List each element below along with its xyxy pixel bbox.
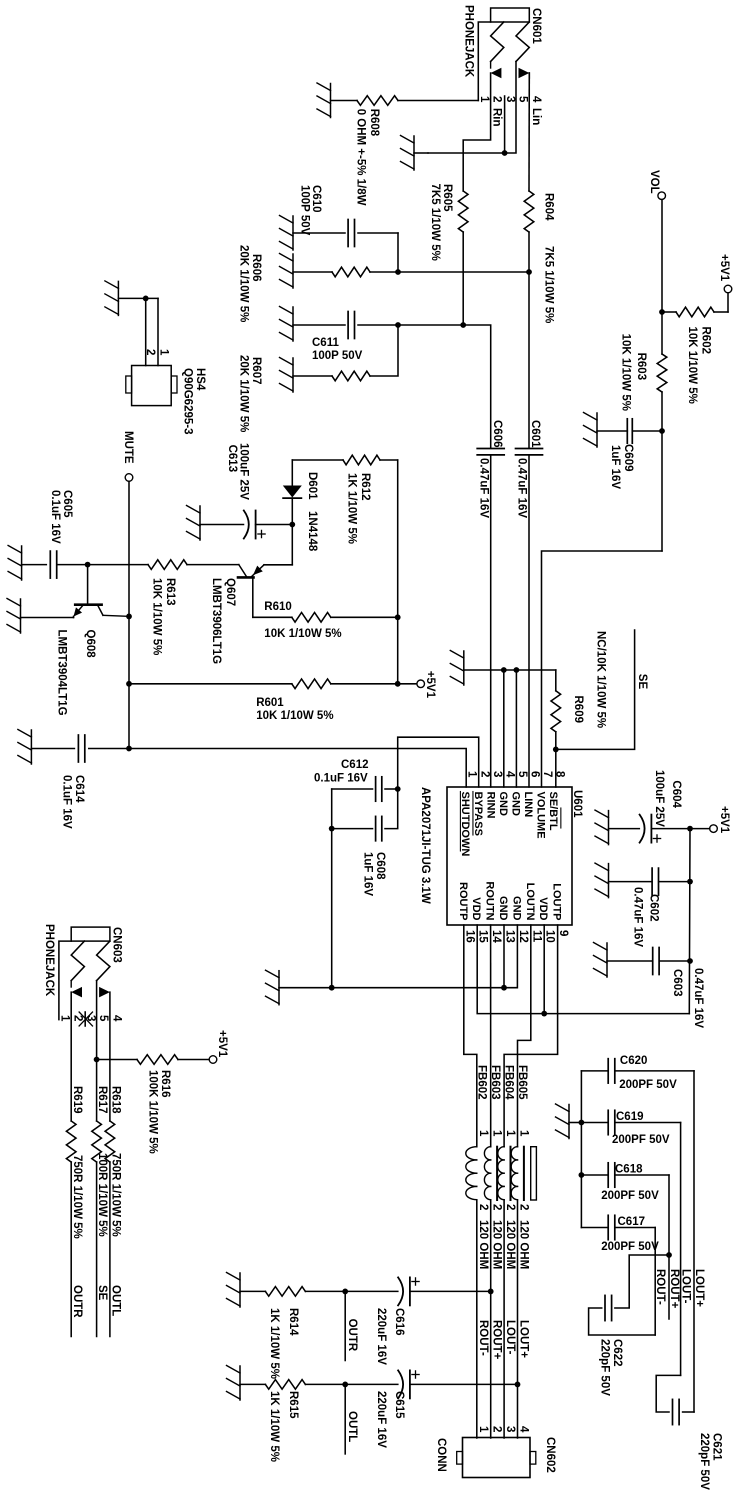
- wire C613 top: [256, 524, 293, 526]
- CN603 switch arrow pin4: [99, 987, 110, 998]
- svg-text:C609: C609: [622, 444, 634, 472]
- label R619 value: [71, 1155, 83, 1239]
- label R608 value: [355, 109, 367, 206]
- pin number 1 CN601: [478, 96, 490, 103]
- wire pin14 to FB603: [490, 925, 492, 1147]
- svg-text:200PF 50V: 200PF 50V: [612, 1134, 670, 1146]
- pin number 11 U601: [530, 930, 542, 943]
- svg-text:C604: C604: [670, 780, 682, 808]
- label R605 value: [429, 184, 441, 261]
- label NC/10K value: [595, 631, 607, 728]
- resistor R617: [92, 1121, 102, 1162]
- transistor Q607 bar: [238, 576, 254, 579]
- wire SHUTDOWN riser: [129, 749, 466, 788]
- wire R609 right stub: [555, 732, 557, 750]
- svg-text:GND: GND: [497, 792, 509, 817]
- plus C616: [412, 1278, 419, 1285]
- node caps/gnd junction: [329, 985, 335, 991]
- wire G1 stem: [414, 152, 428, 154]
- wire R610 bottom: [253, 616, 292, 618]
- wire R603 to corner: [661, 392, 663, 551]
- wire U601 pin10 lead: [543, 925, 545, 1014]
- svg-text:C617: C617: [618, 1216, 646, 1228]
- label C604 value: [653, 770, 665, 827]
- node C622/ROUT+ junction: [666, 1252, 672, 1258]
- svg-text:ROUT+: ROUT+: [491, 1320, 503, 1360]
- label R601 value: [256, 710, 333, 722]
- resistor R614: [265, 1287, 305, 1297]
- svg-text:750R 1/10W 5%: 750R 1/10W 5%: [71, 1155, 83, 1239]
- capacitor C614: [78, 735, 84, 762]
- node R601 bottom junction: [126, 681, 132, 687]
- svg-text:C610: C610: [310, 185, 322, 213]
- svg-text:R612: R612: [359, 473, 371, 501]
- plus C604: [653, 835, 660, 842]
- svg-text:10K 1/10W 5%: 10K 1/10W 5%: [264, 628, 341, 640]
- pin number 5 CN603: [97, 1015, 109, 1022]
- svg-text:0 OHM +-5% 1/8W: 0 OHM +-5% 1/8W: [355, 109, 367, 206]
- svg-text:C606: C606: [491, 420, 503, 448]
- label FB602 value 120 OHM: [477, 1220, 489, 1269]
- label C615: [393, 1391, 405, 1419]
- svg-text:1K 1/10W 5%: 1K 1/10W 5%: [346, 473, 358, 544]
- resistor R601: [292, 679, 331, 689]
- svg-text:2: 2: [491, 96, 503, 102]
- pin name RINN U601 pin3: [484, 792, 496, 819]
- label C617 value: [601, 1241, 659, 1253]
- label C621: [711, 1433, 723, 1461]
- pin number 1 CN602: [477, 1426, 489, 1433]
- svg-text:GND: GND: [510, 896, 522, 921]
- ground G19 (R615): [227, 1366, 241, 1401]
- label C608: [374, 852, 386, 880]
- node pin10 vdd junction: [541, 1011, 547, 1017]
- CN603 ring contact: [97, 941, 110, 981]
- label net ROUT+ ladder: [668, 1269, 680, 1309]
- pin name LINN U601 pin6: [522, 792, 534, 818]
- label C617: [618, 1216, 646, 1228]
- label R608: [368, 109, 380, 137]
- label C609 value: [609, 445, 621, 489]
- wire Rin shunt drop: [358, 324, 463, 326]
- label C612 value: [314, 773, 368, 785]
- svg-text:FB604: FB604: [503, 1065, 515, 1100]
- wire C620 to row: [615, 1070, 694, 1072]
- wire C614 top: [89, 748, 129, 750]
- svg-text:100uF 25V: 100uF 25V: [653, 770, 665, 827]
- wire Q607 emitter lead: [264, 564, 292, 566]
- label net LOUT- ladder: [680, 1269, 692, 1304]
- capacitor C601: [516, 449, 543, 455]
- resistor R603: [657, 354, 667, 392]
- wire pin1 drop: [398, 100, 478, 102]
- svg-text:200PF 50V: 200PF 50V: [601, 1190, 659, 1202]
- capacitor C621: [673, 1399, 680, 1424]
- svg-text:C602: C602: [648, 894, 660, 922]
- wire R614 top: [305, 1290, 345, 1292]
- label FB605: [516, 1065, 528, 1100]
- node C608 junction: [329, 826, 335, 832]
- label Q608 part: [56, 630, 68, 716]
- wire Q608 emitter to ground: [21, 617, 74, 618]
- node OUTL junction: [342, 1382, 348, 1388]
- pin number 14 U601: [490, 930, 502, 943]
- svg-text:10K 1/10W 5%: 10K 1/10W 5%: [620, 334, 632, 411]
- wire U601 pin4 lead: [503, 670, 505, 787]
- svg-text:0.47uF 16V: 0.47uF 16V: [478, 458, 490, 518]
- pin name GND U601 pin5: [509, 792, 521, 817]
- capacitor C617: [608, 1215, 615, 1239]
- wire FB602 to CN602 pin1: [476, 1200, 478, 1438]
- svg-text:LOUT-: LOUT-: [680, 1269, 692, 1304]
- wire C602 to ground: [609, 881, 652, 883]
- pin number 1 FB605: [518, 1130, 530, 1137]
- pin number 9 U601: [557, 930, 569, 936]
- pin number 3 CN602: [504, 1426, 516, 1432]
- svg-text:750R 1/10W 5%: 750R 1/10W 5%: [110, 1153, 122, 1237]
- svg-text:7K5 1/10W 5%: 7K5 1/10W 5%: [429, 184, 441, 261]
- label C603 value: [692, 968, 704, 1028]
- label R612: [359, 473, 371, 501]
- pin number 2 CN601: [491, 96, 503, 102]
- svg-text:1K 1/10W 5%: 1K 1/10W 5%: [268, 1308, 280, 1379]
- label D601 value 1N4148: [306, 511, 318, 552]
- wire C612 top: [385, 788, 398, 790]
- svg-text:R613: R613: [164, 578, 176, 606]
- CN603 switch arrow pin2: [71, 981, 82, 998]
- svg-text:R618: R618: [110, 1086, 122, 1114]
- svg-text:U601: U601: [571, 790, 583, 818]
- node R601/bypass junction: [395, 681, 401, 687]
- label +5V1 (R616): [216, 1030, 228, 1058]
- inductor FB605 ferrite bead: [511, 1147, 524, 1200]
- label R602: [700, 327, 712, 355]
- pin name VDD U601 pin15: [470, 897, 482, 920]
- svg-text:VDD: VDD: [537, 897, 549, 920]
- label net ROUT- ladder: [654, 1269, 666, 1305]
- svg-text:Q607: Q607: [224, 578, 236, 606]
- svg-text:BYPASS: BYPASS: [472, 792, 484, 836]
- ground G9 (C605): [8, 546, 22, 581]
- wire C618 row: [668, 1175, 670, 1319]
- capacitor C611: [348, 312, 354, 339]
- svg-text:C615: C615: [393, 1391, 405, 1419]
- resistor R615: [265, 1380, 305, 1390]
- wire C618 to row: [615, 1174, 669, 1176]
- node C610/R606 junction: [395, 269, 401, 275]
- wire R618 to OUTL end: [109, 1162, 111, 1337]
- node R610 top junction: [395, 614, 401, 620]
- label C605 value: [49, 490, 61, 544]
- svg-text:4: 4: [110, 1015, 122, 1022]
- svg-text:ROUT-: ROUT-: [654, 1269, 666, 1305]
- pin number 7 U601: [541, 771, 553, 777]
- wire C618 bottom: [581, 1174, 608, 1176]
- pin number 5 U601: [516, 771, 528, 778]
- label R606 value: [238, 245, 250, 322]
- svg-text:100P 50V: 100P 50V: [299, 185, 311, 236]
- resistor R602: [676, 307, 714, 317]
- label +5V1 (R601): [424, 671, 436, 699]
- wire C606 to U601 pin3: [490, 456, 492, 787]
- svg-text:2: 2: [491, 1204, 503, 1210]
- svg-text:C612: C612: [341, 759, 369, 771]
- svg-text:LOUTN: LOUTN: [524, 883, 536, 921]
- label FB604: [503, 1065, 515, 1100]
- label Q607: [224, 578, 236, 606]
- connector CN602 body: [457, 1438, 536, 1478]
- wire U601 pin12 lead: [332, 925, 518, 988]
- wire Rin: [463, 73, 490, 191]
- pin name VDD U601 pin10: [537, 897, 549, 920]
- capacitor C618: [608, 1163, 615, 1187]
- label C606: [491, 420, 503, 448]
- pin number 4 CN601: [530, 96, 542, 103]
- label C605: [61, 490, 73, 518]
- wire VOL line: [661, 200, 663, 354]
- wire +5V1 drop: [690, 828, 710, 830]
- pin number 10 U601: [544, 930, 556, 943]
- node OUTR junction: [342, 1289, 348, 1295]
- pin number 2 FB602: [477, 1204, 489, 1210]
- inductor FB602 ferrite bead: [466, 1147, 477, 1200]
- svg-text:20K 1/10W 5%: 20K 1/10W 5%: [238, 355, 250, 432]
- wire HS4 pin2: [145, 298, 147, 365]
- terminal +5V1 (C604): [710, 825, 718, 833]
- wire FB604 to CN602 pin3: [503, 1200, 505, 1438]
- svg-text:200PF 50V: 200PF 50V: [619, 1079, 677, 1091]
- wire CN601 pin5: [428, 62, 516, 154]
- label R618: [110, 1086, 122, 1114]
- svg-text:VOL: VOL: [648, 170, 660, 194]
- pin number 4 U601: [503, 771, 515, 778]
- svg-text:1: 1: [504, 1130, 516, 1137]
- label U601: [571, 790, 583, 818]
- wire U601 pin2 lead: [398, 737, 479, 789]
- svg-text:10K 1/10W 5%: 10K 1/10W 5%: [256, 710, 333, 722]
- svg-text:2: 2: [491, 1426, 503, 1432]
- svg-text:C605: C605: [61, 490, 73, 518]
- pin name ROUTP U601 pin16: [457, 882, 469, 921]
- label PHONEJACK: [463, 5, 475, 78]
- svg-text:10K 1/10W 5%: 10K 1/10W 5%: [686, 327, 698, 404]
- label Q607 part: [210, 578, 222, 664]
- label R612 value: [346, 473, 358, 544]
- wire MUTE line: [128, 481, 130, 748]
- CN601 switch arrow pin4: [519, 68, 530, 79]
- svg-text:+5V1: +5V1: [424, 671, 436, 699]
- label C611: [312, 337, 339, 349]
- pin number 1 FB604: [504, 1130, 516, 1137]
- label R602 value: [686, 327, 698, 404]
- svg-text:R608: R608: [368, 109, 380, 137]
- wire C616 top: [410, 1290, 491, 1292]
- pin number 1 CN603: [59, 1015, 71, 1022]
- connector CN603 phonejack body: [71, 927, 110, 941]
- node C616/ROUT+ junction: [488, 1289, 494, 1295]
- wire C617 to row: [615, 1227, 655, 1229]
- node C612 junction: [395, 786, 401, 792]
- svg-text:14: 14: [490, 930, 502, 943]
- svg-text:2: 2: [144, 349, 156, 355]
- wire R601 to +5V1: [398, 683, 417, 685]
- svg-text:9: 9: [557, 930, 569, 936]
- pin number 12 U601: [517, 930, 529, 943]
- resistor R606 wire top: [370, 271, 398, 273]
- ground G11 (pins12/13): [266, 970, 280, 1005]
- label R615 value: [268, 1391, 280, 1462]
- pin number 2 FB604: [504, 1204, 516, 1210]
- label +5V1 (C604): [718, 806, 730, 834]
- wire CN603 pin5 to R617: [96, 981, 98, 1121]
- label VOL: [648, 170, 660, 194]
- svg-text:1: 1: [59, 1015, 71, 1022]
- svg-text:C620: C620: [620, 1055, 648, 1067]
- wire C601 to U601 pin6: [528, 456, 530, 787]
- svg-text:2: 2: [71, 1015, 83, 1021]
- label HS4 part: [182, 368, 194, 435]
- wire OUTR stub: [344, 1291, 346, 1360]
- node Rin/C611 junction: [460, 322, 466, 328]
- svg-text:LMBT3906LT1G: LMBT3906LT1G: [210, 578, 222, 664]
- wire GND drop pins4/5: [464, 669, 556, 671]
- label R606: [250, 254, 262, 282]
- wire R616 top: [178, 1059, 209, 1061]
- wire Q608 base lead: [87, 565, 89, 605]
- pin name SHUTDOWN U601 pin1: [459, 792, 471, 857]
- inductor FB604 ferrite bead: [498, 1147, 511, 1200]
- label R618 value: [110, 1153, 122, 1237]
- wire R605 to jog: [462, 232, 464, 325]
- wire R615 to ground: [240, 1383, 265, 1385]
- svg-text:Q608: Q608: [84, 630, 96, 659]
- svg-text:SE: SE: [96, 1285, 108, 1301]
- svg-text:FB602: FB602: [475, 1065, 487, 1100]
- svg-text:220pF 50V: 220pF 50V: [599, 1339, 611, 1396]
- svg-text:220pF 50V: 220pF 50V: [698, 1433, 710, 1490]
- pin number 16 U601: [463, 930, 475, 943]
- wire Q607 base to R613: [187, 564, 239, 566]
- pin name SE/BTL U601 pin8: [547, 792, 561, 831]
- node C618 bus junction: [579, 1172, 585, 1178]
- label R601: [256, 697, 284, 709]
- label C619: [616, 1111, 644, 1123]
- ground G8 (Q608): [7, 599, 21, 634]
- svg-text:CN603: CN603: [111, 927, 123, 963]
- transistor Q607 base diag: [239, 565, 247, 577]
- label FB605 value 120 OHM: [518, 1220, 530, 1269]
- label R617: [96, 1086, 108, 1114]
- svg-text:R602: R602: [700, 327, 712, 355]
- pin number 4 CN602: [518, 1426, 530, 1433]
- svg-text:C603: C603: [671, 969, 683, 997]
- svg-text:220uF 16V: 220uF 16V: [375, 1308, 387, 1365]
- label Lin: [530, 108, 542, 125]
- label C601: [529, 420, 541, 448]
- capacitor C606: [477, 449, 504, 455]
- svg-text:PHONEJACK: PHONEJACK: [43, 924, 55, 997]
- svg-text:1: 1: [477, 1426, 489, 1433]
- wire BYPASS line: [397, 460, 399, 684]
- svg-text:C614: C614: [73, 775, 85, 803]
- node pin5 gnd: [514, 667, 520, 673]
- svg-text:APA2071JI-TUG 3.1W: APA2071JI-TUG 3.1W: [419, 787, 431, 904]
- svg-text:120 OHM: 120 OHM: [491, 1220, 503, 1269]
- svg-text:PHONEJACK: PHONEJACK: [463, 5, 475, 78]
- label HS4: [194, 368, 206, 391]
- svg-text:13: 13: [504, 930, 516, 943]
- pin number 2 HS4: [144, 349, 156, 355]
- label R614 value: [268, 1308, 280, 1379]
- ground G7 (C613): [187, 506, 201, 541]
- svg-text:ROUT+: ROUT+: [668, 1269, 680, 1309]
- node R602 junction: [659, 309, 665, 315]
- label C603: [671, 969, 683, 997]
- pin name LOUTP U601 pin9: [551, 883, 563, 920]
- transistor Q607 emitter: [252, 565, 265, 577]
- wire R608 to ground: [331, 100, 358, 102]
- resistor R604: [524, 191, 534, 232]
- label CN602: [544, 1437, 556, 1473]
- resistor R609: [551, 691, 561, 732]
- wire R612 to D601: [292, 459, 343, 461]
- label CN603: [111, 927, 123, 963]
- svg-text:LOUT+: LOUT+: [518, 1320, 530, 1358]
- svg-text:R610: R610: [264, 601, 292, 613]
- wire FB603 to CN602 pin2: [490, 1200, 492, 1438]
- wire C619 bottom: [581, 1122, 608, 1124]
- pin number 5 CN601: [517, 96, 529, 103]
- label C608 value: [362, 852, 374, 896]
- node C603 junction: [687, 958, 693, 964]
- svg-text:0.47uF 16V: 0.47uF 16V: [692, 968, 704, 1028]
- svg-text:ROUTN: ROUTN: [484, 881, 496, 920]
- label D601: [306, 472, 318, 500]
- wire D601 row: [291, 460, 293, 486]
- label R607: [250, 357, 262, 385]
- label R605: [441, 184, 453, 212]
- wire R610 top: [331, 616, 398, 618]
- node C613 junction: [289, 522, 295, 528]
- transistor Q608 collector: [98, 606, 129, 617]
- wire C620 row: [693, 1071, 695, 1412]
- svg-text:C622: C622: [611, 1339, 623, 1367]
- svg-text:C613: C613: [226, 445, 238, 473]
- svg-text:10K 1/10W 5%: 10K 1/10W 5%: [151, 578, 163, 655]
- pin number 1 U601: [466, 771, 478, 778]
- resistor R606: [332, 267, 370, 277]
- svg-text:OUTR: OUTR: [346, 1319, 358, 1352]
- label C606 value: [478, 458, 490, 518]
- ground G20 (cap bus): [556, 1104, 570, 1139]
- svg-text:1uF 16V: 1uF 16V: [609, 445, 621, 489]
- ground G16 (U601 GND pins): [450, 651, 464, 686]
- pin number 13 U601: [504, 930, 516, 943]
- label R603: [635, 353, 647, 381]
- wire HS4 pin1: [157, 298, 159, 365]
- wire C605 top: [57, 564, 88, 566]
- label FB603 value 120 OHM: [491, 1220, 503, 1269]
- wire C605 to ground: [22, 564, 47, 566]
- wire OUTL stub: [344, 1384, 346, 1454]
- wire R616 bottom: [97, 1059, 137, 1061]
- wire R615 top: [305, 1383, 345, 1385]
- capacitor C610: [348, 220, 354, 247]
- label SE net: [636, 674, 648, 690]
- svg-text:100uF 25V: 100uF 25V: [238, 443, 250, 500]
- wire gnd row under caps: [331, 789, 333, 988]
- svg-text:15: 15: [477, 930, 489, 943]
